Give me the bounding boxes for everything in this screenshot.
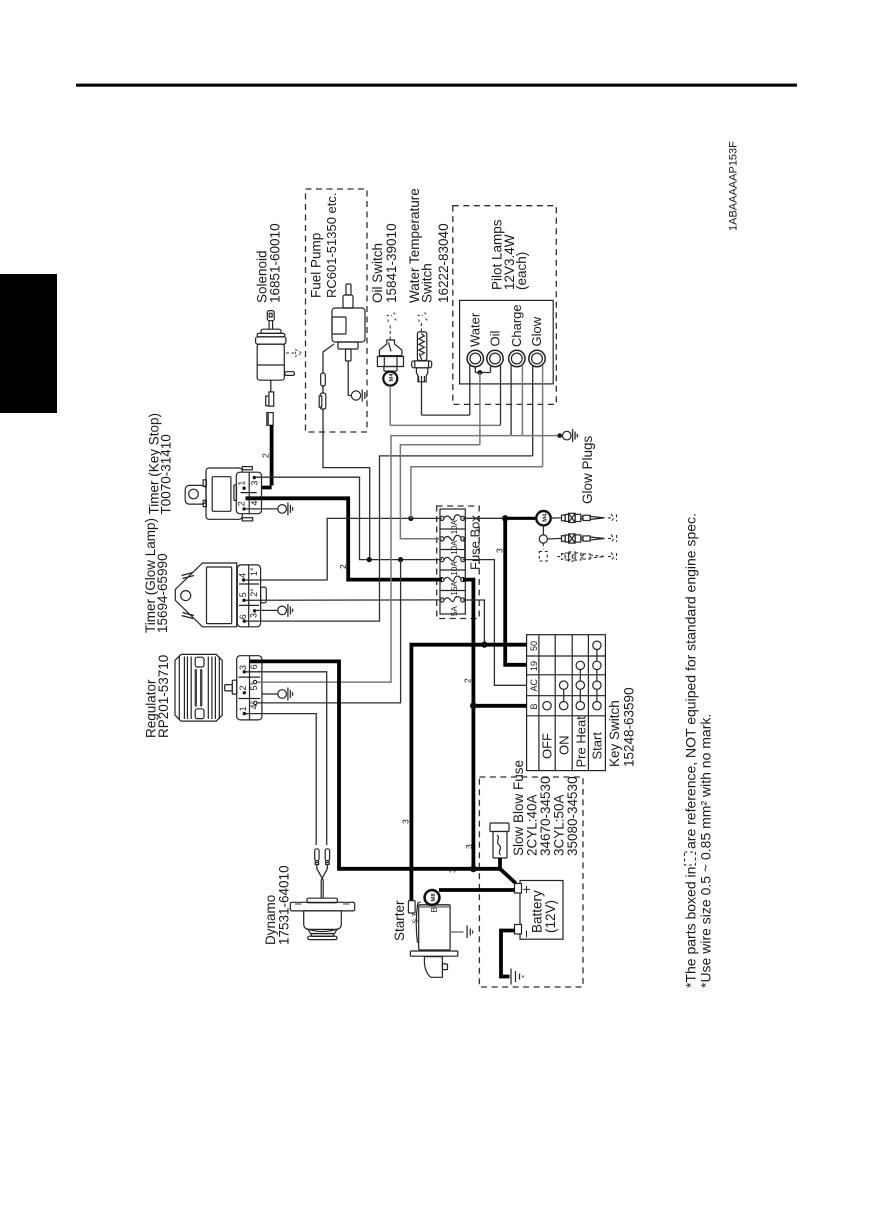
- svg-text:15248-63590: 15248-63590: [622, 687, 637, 767]
- svg-text:1ABAAAAAP153F: 1ABAAAAAP153F: [728, 141, 740, 231]
- svg-text:RP201-53710: RP201-53710: [156, 655, 171, 738]
- svg-text:16851-60010: 16851-60010: [268, 223, 283, 303]
- svg-text:1: 1: [238, 706, 248, 711]
- svg-text:2: 2: [261, 453, 271, 458]
- svg-text:50: 50: [529, 641, 539, 651]
- svg-text:Switch: Switch: [420, 263, 435, 303]
- svg-text:15694-65990: 15694-65990: [155, 553, 170, 633]
- svg-text:Fuel Pump: Fuel Pump: [309, 233, 324, 298]
- svg-text:Oil Switch: Oil Switch: [370, 243, 385, 303]
- svg-text:1: 1: [236, 481, 246, 486]
- svg-text:B: B: [429, 907, 439, 913]
- svg-text:Charge: Charge: [509, 304, 524, 347]
- svg-text:(12V): (12V): [543, 900, 558, 933]
- svg-text:Start: Start: [590, 732, 605, 760]
- svg-text:19: 19: [529, 661, 539, 671]
- svg-text:4°: 4°: [249, 700, 259, 709]
- svg-text:4: 4: [249, 501, 259, 506]
- svg-text:3: 3: [401, 819, 411, 824]
- svg-text:6: 6: [249, 664, 259, 669]
- svg-text:Glow: Glow: [529, 316, 544, 346]
- svg-text:Pre Heat: Pre Heat: [574, 716, 589, 768]
- svg-text:are reference, NOT equiped for: are reference, NOT equiped for standard …: [683, 513, 699, 849]
- svg-text:17531-64010: 17531-64010: [277, 865, 292, 945]
- svg-text:1°: 1°: [249, 567, 259, 576]
- svg-text:AC: AC: [529, 678, 539, 691]
- svg-text:3: 3: [495, 548, 505, 553]
- svg-text:ON: ON: [557, 736, 572, 756]
- svg-text:T0070-31410: T0070-31410: [159, 434, 174, 514]
- svg-text:10A: 10A: [450, 561, 459, 576]
- svg-text:M4: M4: [543, 513, 549, 522]
- svg-text:2: 2: [463, 678, 473, 683]
- svg-text:*Use wire size 0.5 ~ 0.85 mm²: *Use wire size 0.5 ~ 0.85 mm² with no ma…: [698, 714, 714, 988]
- svg-text:5A: 5A: [450, 606, 459, 616]
- svg-text:M4: M4: [389, 373, 395, 382]
- svg-text:Oil: Oil: [488, 331, 503, 347]
- svg-text:5: 5: [238, 592, 248, 597]
- svg-text:Fuse Box: Fuse Box: [468, 515, 483, 570]
- svg-text:4: 4: [238, 573, 248, 578]
- svg-text:Starter: Starter: [392, 900, 407, 941]
- svg-text:Glow Plugs: Glow Plugs: [580, 435, 595, 504]
- svg-text:2°: 2°: [249, 588, 259, 597]
- svg-text:35080-34530: 35080-34530: [565, 776, 580, 856]
- svg-text:3: 3: [238, 665, 248, 670]
- svg-text:3: 3: [249, 613, 259, 618]
- svg-text:2: 2: [238, 685, 248, 690]
- svg-text:M8: M8: [431, 893, 437, 902]
- svg-text:15A: 15A: [450, 581, 459, 596]
- svg-text:15841-39010: 15841-39010: [384, 223, 399, 303]
- svg-text:RC601-51350 etc.: RC601-51350 etc.: [324, 192, 339, 298]
- svg-text:10A: 10A: [450, 519, 459, 534]
- svg-text:OFF: OFF: [540, 733, 555, 759]
- svg-text:(each): (each): [514, 252, 529, 290]
- svg-text:B: B: [529, 703, 539, 709]
- svg-text:*The parts boxed in: *The parts boxed in: [683, 867, 699, 988]
- svg-text:3: 3: [249, 481, 259, 486]
- svg-text:6: 6: [238, 614, 248, 619]
- svg-text:Water: Water: [468, 312, 483, 347]
- svg-text:10A: 10A: [450, 540, 459, 555]
- svg-text:Key Switch: Key Switch: [607, 700, 622, 767]
- svg-text:16222-83040: 16222-83040: [436, 223, 451, 303]
- svg-text:2: 2: [236, 501, 246, 506]
